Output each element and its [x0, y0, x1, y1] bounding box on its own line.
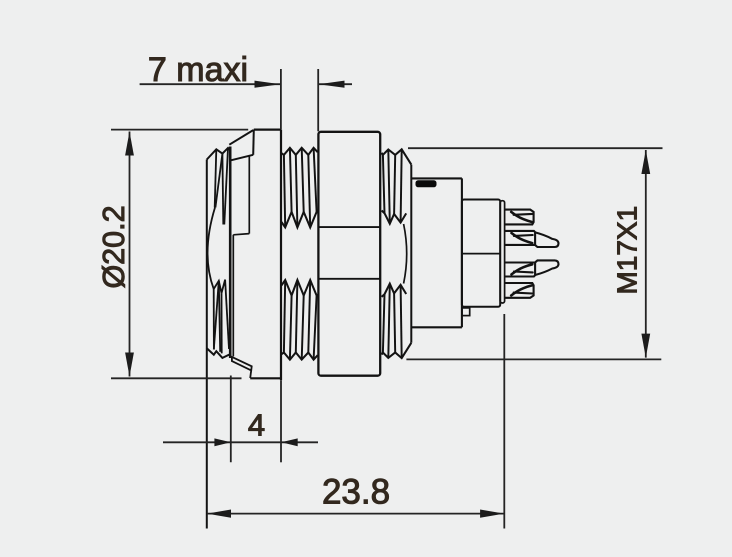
contact 4 (bottom solder lug) [504, 283, 533, 298]
dim 23.8 right extension line [503, 314, 505, 529]
grip front face step [248, 155, 250, 233]
insulator block [462, 200, 500, 307]
dim M17X1 extension lines [408, 147, 663, 149]
panel thread upper band [282, 148, 318, 155]
grip flute edge (thick) [229, 147, 232, 359]
svg-text:Ø20.2: Ø20.2 [97, 205, 131, 288]
grip waist arc [208, 208, 215, 290]
rear body outline [411, 177, 462, 179]
grip flange top edge [254, 129, 282, 131]
svg-text:M17X1: M17X1 [612, 206, 643, 295]
dim 20.2 extension lines [111, 129, 248, 131]
dim 20.2 dimension line [129, 132, 131, 377]
grip top chamfer facet [229, 130, 253, 145]
thread end face [410, 165, 412, 343]
grip flange rear face / 4-dim right extension [280, 130, 282, 381]
dim 4 dimension line [163, 441, 318, 443]
svg-text:4: 4 [248, 408, 265, 443]
grip bottom scallop profile [207, 348, 231, 358]
seal mark (black) [416, 180, 437, 187]
grip flange bottom edge [250, 377, 281, 379]
grip bottom chamfer facet [232, 357, 252, 371]
panel thread lower band [282, 353, 318, 360]
M17 thread lower band [382, 343, 412, 358]
grip flange front face upper [252, 130, 255, 155]
locating pin [462, 308, 470, 316]
dim M17X1 dimension line [645, 150, 647, 358]
M17 thread upper band [382, 149, 412, 164]
dim 23.8 dimension line [207, 513, 505, 515]
dim 7 maxi extension lines [280, 69, 282, 129]
insulator rear plate [500, 201, 504, 303]
grip flute lines lower band [214, 280, 225, 294]
contact 1 (top solder lug) [504, 210, 533, 225]
insulator mid line [462, 253, 500, 255]
dim 7 maxi leader line [140, 83, 281, 85]
dim 4 left extension line [230, 376, 232, 463]
contact 2 (long solder lug) [504, 231, 535, 245]
grip outer silhouette / 23.8 left extension line [206, 160, 208, 529]
nut facet line lower [318, 278, 380, 280]
grip flute lines upper band [215, 149, 217, 207]
thread relief bulge arc [404, 224, 407, 284]
grip top scallop profile [207, 148, 231, 160]
contact 3 (long solder lug) [504, 263, 535, 277]
hex nut body [318, 132, 380, 376]
nut facet line upper [318, 226, 380, 228]
svg-text:23.8: 23.8 [322, 473, 390, 512]
